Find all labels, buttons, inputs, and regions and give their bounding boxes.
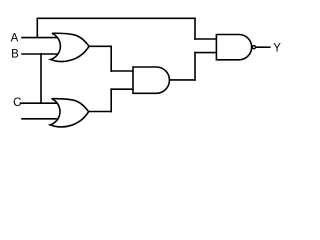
wire A input (22, 37, 57, 39)
svg-text:A: A (11, 33, 19, 45)
wire rail down to NAND pin1 (194, 18, 196, 39)
wire NAND input 2 (195, 52, 216, 54)
wire NAND input 1 (195, 38, 216, 40)
wire OR2 output (88, 111, 111, 113)
wire OR2 lower input stub (22, 118, 56, 120)
nand-gate U4 body (216, 35, 251, 60)
wire A branch up (36, 18, 38, 37)
wire AND output (169, 79, 195, 81)
wire B input (22, 53, 58, 55)
svg-text:Y: Y (273, 43, 281, 55)
wire AND output up (194, 53, 196, 80)
and-gate U3 (133, 67, 169, 93)
wire top rail (37, 17, 195, 19)
wire OR1 output (89, 45, 112, 47)
wire B branch down (40, 54, 42, 103)
wire OR1 output down (110, 46, 112, 71)
or-gate U2 (inputs B,C) (50, 99, 89, 127)
or-gate U1 (inputs A,B) (51, 33, 90, 61)
wire C input (21, 102, 57, 104)
svg-text:B: B (11, 49, 19, 61)
nand-gate U4 inversion bubble (252, 46, 255, 49)
wire AND input 2 (111, 88, 133, 90)
svg-text:C: C (13, 97, 21, 109)
wire NAND output (256, 46, 270, 48)
wire AND input 1 (111, 70, 133, 72)
wire OR2 output up (110, 89, 112, 111)
